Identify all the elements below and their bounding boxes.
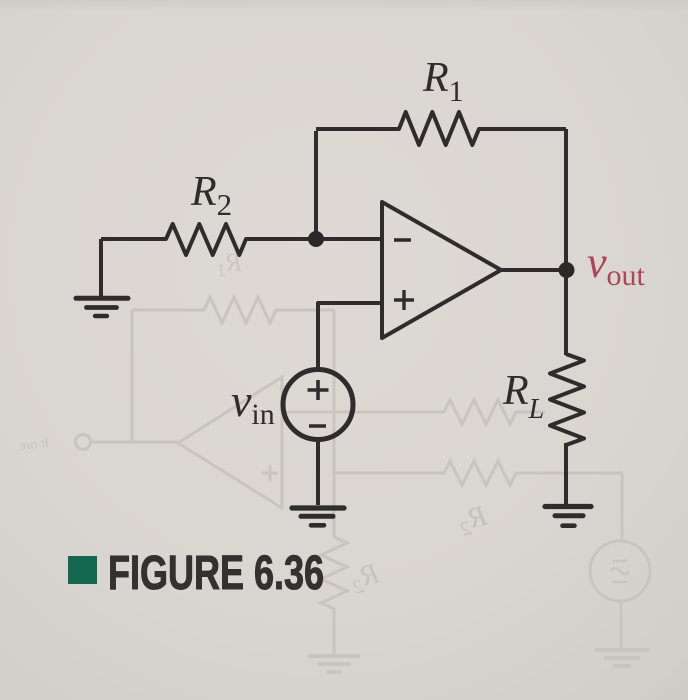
ghost wire spine (center vertical) [333, 310, 336, 537]
wire: right vertical from R1 to output node [564, 129, 568, 270]
ghost op-amp plus [262, 465, 278, 481]
ghost source circle [590, 541, 650, 601]
svg-text:FIGURE 6.36: FIGURE 6.36 [108, 547, 324, 600]
wire: feedback left vertical [314, 131, 318, 239]
node: output junction [559, 262, 575, 278]
ground (below RL) [545, 504, 591, 509]
ghost wire (left vertical) [131, 310, 134, 441]
node: inverting input junction [308, 231, 324, 247]
ghost wire (row A to triangle) [282, 411, 334, 414]
ghost source marks [611, 561, 629, 582]
op-amp minus sign [394, 238, 411, 241]
wire: left ground drop [99, 239, 103, 296]
resistor R1 [316, 112, 566, 145]
source vin plus [308, 380, 329, 400]
ghost wire (below source) [620, 601, 623, 648]
ghost wire (right vertical above source) [621, 473, 624, 541]
wire: op-amp output [501, 268, 566, 272]
ghost ground (bottom center) [308, 656, 360, 672]
ghost ground (bottom right) [595, 650, 649, 666]
caption square bullet [68, 556, 97, 584]
source vin circle [283, 370, 353, 440]
ground (left) [76, 296, 128, 301]
op-amp U1 [382, 202, 501, 338]
ghost resistor (row A right) [334, 400, 545, 424]
wire: below vin [316, 440, 320, 505]
wire: noninverting input [318, 303, 382, 370]
ground (below vin) [292, 505, 344, 510]
svg-text:ɘɿo ʇƚ: ɘɿo ʇƚ [19, 436, 50, 454]
ghost wire (horizontal to op-amp apex) [91, 441, 178, 444]
wire: RL to ground [564, 443, 568, 504]
ghost op-amp (mirrored) [178, 377, 282, 508]
resistor RL [550, 354, 584, 445]
ghost terminal circle [76, 435, 91, 450]
op-amp plus sign [394, 290, 414, 310]
wire: output node down to RL [564, 270, 568, 355]
ghost resistor (row B right) [334, 461, 622, 485]
ghost resistor (vertical on spine, below caption) [321, 537, 347, 654]
source vin minus [309, 424, 326, 428]
ghost resistor (top horizontal row) [132, 297, 334, 323]
resistor R2 [101, 224, 382, 255]
